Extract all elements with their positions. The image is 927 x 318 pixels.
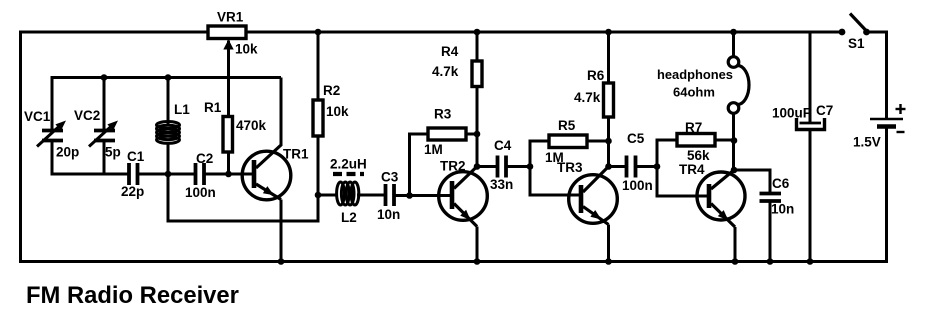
battery minus sign (897, 131, 905, 133)
capacitor C4 (498, 156, 507, 178)
label VC1 (24, 109, 51, 124)
svg-text:64ohm: 64ohm (673, 85, 715, 100)
wire R6 bottom lead (607, 117, 610, 167)
svg-text:100n: 100n (622, 178, 653, 193)
label C7 (816, 103, 833, 118)
node L2 left junction (315, 192, 322, 199)
value 33n (490, 177, 513, 192)
node TR1 emitter ground junction (278, 258, 285, 265)
capacitor C1 (129, 163, 138, 185)
capacitor C6 (760, 194, 782, 202)
label C3 (381, 170, 399, 185)
wire L2 to C3 (357, 194, 386, 197)
battery B1 positive plate (870, 118, 903, 121)
svg-text:C1: C1 (127, 149, 145, 164)
wire R2 top lead (317, 32, 320, 100)
potentiometer VR1 (208, 26, 246, 117)
label TR3 (557, 160, 583, 175)
resistor R4 (472, 61, 482, 87)
svg-text:TR4: TR4 (679, 162, 705, 177)
value 10n (C3) (377, 207, 400, 222)
wire TR2 collector to C4 (477, 165, 498, 168)
node VC2 top junction (101, 74, 108, 81)
wire R2 bottom lead (317, 136, 320, 196)
label C1 (127, 149, 145, 164)
wire C1 to junction (138, 173, 196, 176)
svg-text:10k: 10k (326, 104, 349, 119)
value 1M (R5) (545, 150, 564, 165)
svg-text:1.5V: 1.5V (853, 135, 881, 150)
wire R5 left lead (529, 140, 550, 167)
wire L1 junction down (167, 174, 170, 223)
node R2 top junction (315, 29, 322, 36)
wire R5 right lead (587, 140, 609, 143)
svg-text:R5: R5 (558, 118, 576, 133)
svg-text:4.7k: 4.7k (432, 64, 459, 79)
wire R3 left lead (408, 134, 428, 196)
svg-text:headphones: headphones (657, 67, 733, 82)
node L1 top junction (165, 74, 172, 81)
wire top supply rail middle segment (246, 31, 842, 34)
node R7-headphones junction (731, 137, 738, 144)
label S1 (848, 36, 865, 51)
wire C2 to TR1 base (204, 173, 256, 176)
value 100n (C2) (185, 185, 216, 200)
label L1 (174, 102, 190, 117)
capacitor C3 (386, 184, 395, 206)
resistor R6 (604, 83, 614, 117)
label R1 (204, 100, 222, 115)
svg-text:56k: 56k (687, 148, 710, 163)
wire feedback up to L2 node (317, 195, 320, 221)
battery plus sign (896, 104, 906, 114)
wire junction down to TR4 base (656, 167, 712, 198)
value 4.7k (R6) (574, 90, 601, 105)
headphones band arc (738, 66, 750, 105)
variable capacitor VC1 (37, 121, 66, 147)
inductor L1 (157, 122, 180, 144)
value 5p (105, 145, 121, 160)
value 20p (56, 145, 79, 160)
node TR3 emitter ground junction (605, 258, 612, 265)
node L1 bottom junction (165, 171, 172, 178)
node TR3 collector junction (605, 163, 612, 170)
node headphones top junction (730, 29, 737, 36)
wire R6 top lead (607, 32, 610, 83)
value 1M (R3) (424, 142, 443, 157)
svg-text:R3: R3 (434, 107, 452, 122)
wire R7 right lead (715, 139, 734, 142)
value 10k (R2) (326, 104, 349, 119)
svg-text:100uF: 100uF (772, 106, 811, 121)
wire left rail (19, 31, 22, 264)
label C4 (494, 138, 512, 153)
wire C4 to junction (506, 165, 530, 168)
resistor R1 (223, 117, 233, 153)
label VC2 (74, 108, 100, 123)
node R3 bottom junction (406, 192, 413, 199)
value 470k (236, 118, 267, 133)
wire L2 left lead (318, 194, 338, 197)
svg-text:L1: L1 (174, 102, 190, 117)
wire R4 top lead (476, 32, 479, 61)
wire R3 right lead (466, 133, 477, 136)
battery B1 negative plate (877, 124, 896, 128)
svg-text:22p: 22p (121, 184, 144, 199)
svg-text:R1: R1 (204, 100, 222, 115)
headphones earpiece bottom (728, 103, 739, 114)
svg-text:20p: 20p (56, 145, 79, 160)
node C6 ground junction (767, 258, 774, 265)
svg-text:TR1: TR1 (283, 147, 309, 162)
label C2 (196, 151, 213, 166)
label headphones (657, 67, 733, 82)
wire R7 left lead (656, 139, 678, 167)
svg-text:1M: 1M (424, 142, 443, 157)
svg-text:VC2: VC2 (74, 108, 100, 123)
label L2 (341, 210, 357, 225)
svg-text:FM Radio Receiver: FM Radio Receiver (26, 282, 239, 309)
svg-text:33n: 33n (490, 177, 513, 192)
svg-text:L2: L2 (341, 210, 357, 225)
svg-text:R6: R6 (587, 68, 605, 83)
wire L1 branch bottom (167, 144, 170, 174)
inductor L2 (337, 182, 359, 205)
wire TR1 collector (280, 78, 283, 147)
wire VC2 branch top (103, 78, 106, 131)
wire C6 bottom lead (769, 201, 772, 262)
svg-text:R7: R7 (685, 120, 702, 135)
capacitor C7 (electrolytic) (797, 118, 825, 130)
resistor R7 (677, 134, 715, 147)
value 22p (121, 184, 144, 199)
svg-text:TR3: TR3 (557, 160, 583, 175)
svg-text:C2: C2 (196, 151, 213, 166)
svg-text:5p: 5p (105, 145, 121, 160)
value 56k (687, 148, 710, 163)
svg-text:C3: C3 (381, 170, 399, 185)
wire C3 to TR2 base (394, 194, 454, 197)
label TR4 (679, 162, 705, 177)
svg-text:C4: C4 (494, 138, 512, 153)
wire bottom ground rail (19, 260, 888, 263)
svg-text:470k: 470k (236, 118, 267, 133)
transistor TR3 (569, 167, 618, 262)
svg-text:100n: 100n (185, 185, 216, 200)
label R6 (587, 68, 605, 83)
node C4-R5-TR3 junction (527, 163, 534, 170)
svg-text:TR2: TR2 (440, 159, 466, 174)
wire VC1 branch bottom (51, 141, 54, 176)
node C7 ground junction (807, 258, 814, 265)
wire junction down to TR3 base (529, 167, 584, 197)
label VR1 (217, 10, 244, 25)
label 64ohm (673, 85, 715, 100)
svg-text:VC1: VC1 (24, 109, 51, 124)
svg-text:R4: R4 (441, 44, 459, 59)
value 4.7k (R4) (432, 64, 459, 79)
svg-text:4.7k: 4.7k (574, 90, 601, 105)
svg-text:10n: 10n (377, 207, 400, 222)
node R6 top junction (605, 29, 612, 36)
svg-text:10k: 10k (235, 42, 258, 57)
headphones earpiece top (728, 57, 739, 68)
wire tank top (52, 76, 281, 79)
node R1 bottom junction (225, 171, 232, 178)
node TR2 collector junction (474, 163, 481, 170)
value 10k (VR1) (235, 42, 258, 57)
title FM Radio Receiver (26, 282, 239, 309)
resistor R2 (313, 100, 323, 136)
wire C7 bottom lead (809, 131, 812, 262)
transistor TR1 (242, 145, 291, 262)
wire TR3 collector to C5 (609, 165, 627, 168)
label TR2 (440, 159, 466, 174)
wire C7 top lead (809, 32, 812, 122)
wire R4 bottom lead (476, 87, 479, 167)
value 100uF (772, 106, 811, 121)
wire VC1 branch top (51, 76, 54, 130)
wire R1 bottom lead (227, 152, 230, 174)
resistor R3 (428, 128, 466, 140)
wire headphones top lead (732, 32, 735, 57)
svg-text:S1: S1 (848, 36, 865, 51)
svg-text:C6: C6 (772, 176, 790, 191)
node R4 top junction (474, 29, 481, 36)
svg-text:2.2uH: 2.2uH (330, 157, 367, 172)
node R5-R6 junction (605, 138, 612, 145)
transistor TR4 (697, 170, 745, 262)
svg-text:VR1: VR1 (217, 10, 244, 25)
svg-text:C7: C7 (816, 103, 833, 118)
value 100n (C5) (622, 178, 653, 193)
wire right rail upper (885, 31, 888, 120)
switch S1 (839, 14, 888, 36)
node TR2 emitter ground junction (474, 258, 481, 265)
wire C5 to junction (636, 165, 658, 168)
value 1.5V (853, 135, 881, 150)
svg-text:R2: R2 (323, 83, 340, 98)
label C5 (627, 131, 645, 146)
label C6 (772, 176, 790, 191)
capacitor C5 (627, 156, 636, 178)
node TR4 emitter ground junction (732, 258, 739, 265)
transistor TR2 (439, 167, 488, 262)
label R2 (323, 83, 340, 98)
label 2.2uH (330, 157, 367, 172)
resistor R5 (549, 135, 587, 148)
wire feedback horizontal (167, 220, 320, 223)
wire top supply rail left segment (21, 31, 209, 34)
wire headphones bottom lead (732, 114, 735, 171)
value 10n (C6) (771, 202, 794, 217)
wire VC2 branch bottom (103, 141, 106, 176)
svg-text:C5: C5 (627, 131, 645, 146)
node R3-R4 junction (474, 131, 481, 138)
inductor L2 core dashes (333, 172, 364, 176)
wire L1 branch top (167, 78, 170, 125)
label R4 (441, 44, 459, 59)
label TR1 (283, 147, 309, 162)
wire right rail lower (885, 127, 888, 262)
label R5 (558, 118, 576, 133)
wire TR4 collector to C6 top (734, 169, 772, 194)
node TR4 collector junction (731, 167, 738, 174)
node C5-R7-TR4 junction (654, 163, 661, 170)
capacitor C2 (196, 163, 205, 185)
label R7 (685, 120, 702, 135)
wire tank bottom row (C1 row) (52, 173, 129, 176)
label R3 (434, 107, 452, 122)
variable capacitor VC2 (89, 121, 118, 147)
svg-text:10n: 10n (771, 202, 794, 217)
